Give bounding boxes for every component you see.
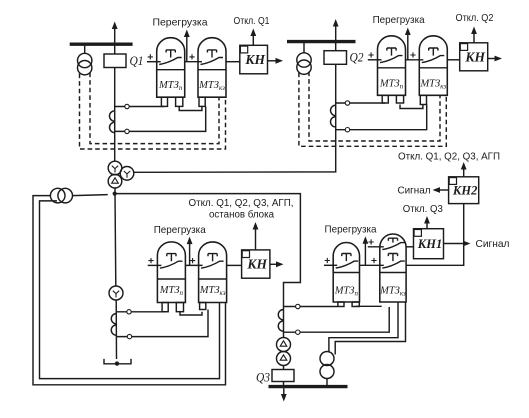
terminal on TA4 tap 2 (296, 330, 300, 334)
terminal on TA1 tap 2 (125, 129, 129, 133)
terminal on TA2 tap 1 (345, 101, 349, 105)
svg-text:Откл. Q1, Q2, Q3, АГП: Откл. Q1, Q2, Q3, АГП (398, 152, 500, 163)
wire: generator stator vertical (114, 194, 117, 286)
wire: plus supply stub into MTZ-p (group 1) (147, 61, 161, 63)
output relay KN2 (449, 177, 479, 204)
output relay KN1 (414, 229, 444, 259)
dashed voltage wires TV2 to MTZkz (group 2) (299, 73, 446, 147)
winding symbol D (LV) (112, 178, 119, 183)
current transformer TA1 (two cores) (109, 111, 114, 121)
terminal on TA3 tap 1 (127, 310, 131, 314)
wire: MTZ-p contact to MTZ-kz lower (group 4) (360, 264, 384, 266)
wire: MTZ-kz return to TN outer (335, 302, 405, 355)
station transformer TSN (two circles) (320, 352, 334, 366)
wire and arrow: KN1 to Signal right (444, 243, 467, 245)
arrow: KN1 output Otkl Q3 (426, 223, 428, 229)
wire: MTZ-kz lower contact to KN2 drop (406, 204, 464, 266)
three-winding transformer T1 (Y Y D) (108, 161, 122, 175)
output relay KN (group 3) (242, 250, 270, 278)
svg-text:Сигнал: Сигнал (476, 239, 510, 250)
wire: main feeder line Q1 vertical (114, 44, 116, 161)
generator G winding circle Y (109, 286, 123, 300)
breaker Q2 (324, 51, 347, 65)
wire: TSN to auxiliary busbar (326, 379, 328, 386)
svg-text:Перегрузка: Перегрузка (154, 225, 206, 236)
wire: plus supply stub into MTZ-p (group 4) (324, 264, 337, 266)
node: neutral junction dot (115, 361, 119, 365)
wire: plus stub into MTZ-kz upper element (368, 246, 384, 248)
relay MTZ-kz (group 1) (198, 38, 226, 97)
svg-text:останов блока: останов блока (209, 209, 275, 220)
wire: plus supply stub into MTZ-p (group 2) (368, 59, 382, 61)
svg-text:Перегрузка: Перегрузка (153, 18, 208, 29)
wire: link MTZ-p to MTZ-kz legs (group 4) (356, 305, 382, 307)
arrow: KN output Otkl Q1 (252, 35, 254, 45)
wire: link MTZ-p to MTZ-kz (group 1) (179, 107, 202, 111)
relay MTZ-kz (group 2) (419, 36, 447, 96)
arrow: KN side output right (group 2) (488, 58, 498, 60)
terminal on TA3 tap 2 (127, 334, 131, 338)
svg-text:Сигнал: Сигнал (398, 186, 431, 197)
wire: MTZ-p contact to MTZ-kz (group 3) (185, 264, 202, 266)
wire: TA3 tap 1 to MTZ (group 3) (117, 311, 167, 313)
arrow: KN2 output Otkl Q1 Q2 Q3 AGP (463, 169, 465, 177)
arrow: KN side output right (group 3) (270, 263, 280, 265)
svg-text:Откл. Q2: Откл. Q2 (456, 13, 494, 24)
arrow: Peregruzka output (group 1) (186, 36, 188, 62)
node: generator HV junction (113, 192, 117, 196)
wire: MTZ-kz contact to KN (group 3) (227, 264, 242, 266)
breaker Q3 (272, 370, 294, 382)
breaker Q1 (104, 54, 126, 68)
relay MTZ-p (group 4) (333, 243, 359, 303)
svg-text:Откл. Q1: Откл. Q1 (234, 16, 270, 27)
svg-text:КН2: КН2 (452, 184, 477, 198)
wire: main feeder line Q2 vertical and down to transformer T1 (134, 42, 336, 173)
winding symbol D lower (280, 355, 287, 360)
wire and arrow: KN2 to Signal left (437, 189, 449, 191)
terminal on TA4 tap 1 (296, 304, 300, 308)
wire: TA1 tap 2 return (115, 107, 206, 132)
winding symbol Y (MV) (124, 171, 130, 178)
wire: MTZ-kz contact to KN (group 2) (447, 59, 459, 61)
svg-text:КН1: КН1 (417, 237, 442, 251)
svg-text:Откл. Q3: Откл. Q3 (403, 204, 444, 215)
arrow: Peregruzka output (group 4) (364, 243, 366, 265)
voltage transformer TV2 (303, 42, 305, 53)
busbar W3 (auxiliaries) (269, 385, 348, 388)
svg-text:Перегрузка: Перегрузка (325, 225, 377, 236)
arrow: Peregruzka output (group 2) (407, 34, 409, 60)
relay MTZ-p (group 2) (378, 36, 406, 96)
svg-text:Q3: Q3 (256, 371, 270, 385)
voltage transformer TV1 (84, 44, 86, 53)
terminal on TA1 tap 1 (125, 104, 129, 108)
wire: TA1 tap 1 to MTZ relay (115, 106, 165, 108)
wire: link MTZ-p to MTZ-kz legs (group 3) (180, 312, 202, 315)
current transformer TA3 (generator neutral) (111, 313, 116, 323)
wire: loop inner around left (40, 201, 220, 379)
wire: feeder Q2 to system with arrow up (335, 27, 337, 42)
wire: plus supply stub into MTZ-p (group 3) (148, 264, 162, 266)
wire: feeder Q1 to system with arrow up (114, 29, 116, 44)
svg-text:КН: КН (246, 257, 267, 272)
excitation transformer TE (two circles) (50, 188, 65, 203)
wire: MTZ-kz return to TN inner (329, 302, 398, 353)
arrow: Peregruzka output (group 3) (189, 243, 191, 265)
output relay KN (group 2) (460, 43, 488, 71)
arrow: KN output Otkl group 3 (255, 229, 257, 250)
wire: MTZ-kz contact to KN (group 1) (226, 61, 240, 63)
winding symbol D upper (280, 341, 287, 346)
wire: junction to excitation transformer (73, 195, 108, 196)
wire: Q3 to auxiliary busbar (283, 382, 285, 386)
wire: link MTZ-p to MTZ-kz (group 2) (400, 105, 423, 109)
terminal on TA2 tap 2 (345, 128, 349, 132)
wire: TN to breaker Q3 (283, 366, 285, 370)
wire: MTZ-kz upper contact to KN1 (406, 246, 413, 248)
wire: TA4 tap 2 (group 4) (284, 307, 390, 332)
wire: TA2 tap 2 return (group 2) (336, 105, 427, 130)
svg-text:Q1: Q1 (130, 54, 144, 68)
dashed voltage wires TV1 to MTZkz (group 1) (80, 74, 226, 150)
relay MTZ-p (group 3) (157, 242, 185, 303)
output relay KN (group 1) (240, 45, 268, 74)
arrow: KN side output right (group 1) (268, 60, 280, 62)
auxiliary transformer TN delta (two circles) (277, 338, 291, 352)
busbar W1 (top-left) (70, 43, 133, 46)
svg-text:Откл. Q1, Q2, Q3, АГП,: Откл. Q1, Q2, Q3, АГП, (189, 198, 294, 209)
current transformer TA2 (331, 105, 336, 115)
wire: loop outer from excitation transformer around left (33, 196, 226, 385)
wire: TA2 tap 1 to MTZ relay (group 2) (336, 102, 386, 104)
relay MTZ-kz (group 4, two elements) (380, 234, 406, 302)
current transformer TA4 (278, 309, 283, 319)
wire: trio down to generator node (114, 188, 116, 194)
svg-text:Перегрузка: Перегрузка (373, 15, 425, 26)
arrow: KN output Otkl Q2 (473, 33, 475, 43)
wire: MTZ-p contact to MTZ-kz (group 1) (185, 61, 202, 63)
wire: generator to neutral (115, 300, 117, 359)
svg-text:КН: КН (464, 49, 485, 64)
wire: TA3 tap 2 (group 3) (117, 310, 209, 337)
wire: TA4 tap 1 to MTZ (group 4) (284, 306, 338, 308)
svg-text:Q2: Q2 (350, 51, 364, 65)
arrow: auxiliary feeder down (283, 388, 285, 395)
ground: generator neutral earthing bracket (104, 359, 131, 364)
winding symbol Y (HV) (112, 166, 118, 173)
busbar W2 (top-right) (287, 40, 356, 43)
relay MTZ-p (group 1) (157, 38, 185, 97)
relay MTZ-kz (group 3) (199, 242, 227, 303)
wire: long link from junction to Q3 branch (115, 194, 301, 338)
svg-text:КН: КН (244, 52, 265, 67)
wire: MTZ-p contact to MTZ-kz (group 2) (406, 59, 424, 61)
